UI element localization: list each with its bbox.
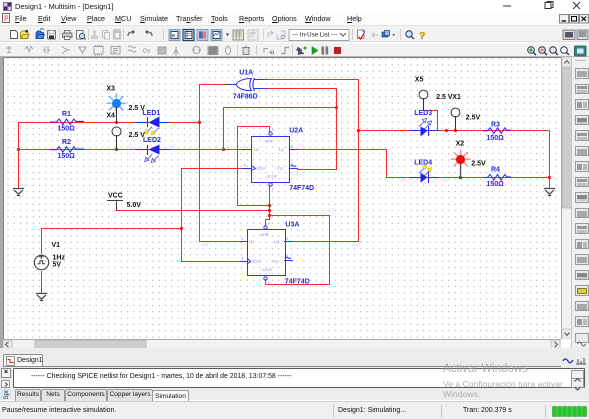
- svg-text:150Ω: 150Ω: [487, 181, 505, 188]
- node preset chain 2: [268, 209, 271, 212]
- svg-text:U3A: U3A: [285, 221, 299, 228]
- open yellow: [21, 30, 30, 39]
- tabs: [0, 389, 589, 402]
- wire to U3A CLK: [182, 261, 241, 263]
- svg-text:X3: X3: [106, 86, 115, 93]
- wire row1 left: [19, 122, 200, 124]
- node X3 stem junction: [115, 121, 118, 124]
- svg-text:1CLK: 1CLK: [256, 167, 266, 171]
- svg-text:74F86D: 74F86D: [233, 94, 258, 101]
- svg-text:X2: X2: [456, 140, 465, 147]
- ground GND3: [545, 189, 555, 196]
- svg-text:?: ?: [419, 30, 425, 42]
- svg-text:--- In-Use List ---: --- In-Use List ---: [292, 31, 337, 38]
- svg-text:3: 3: [241, 257, 243, 261]
- svg-text:~1CLR: ~1CLR: [260, 268, 272, 272]
- svg-text:5: 5: [286, 237, 288, 241]
- wire left rail: [18, 123, 20, 189]
- svg-text:2: 2: [244, 145, 246, 149]
- svg-text:0v: 0v: [143, 48, 151, 55]
- svg-text:~1CLR: ~1CLR: [265, 175, 277, 179]
- node row2 feedback junction: [222, 148, 225, 151]
- wire U3A CLR loop: [266, 216, 330, 285]
- svg-text:5: 5: [291, 145, 293, 149]
- wire U3A PRE jog: [266, 220, 270, 226]
- wire long vertical U3A Q: [358, 80, 360, 242]
- wire VCC feed: [117, 210, 270, 212]
- wire preset chain vertical: [269, 186, 271, 220]
- schematic svg overlay: [3, 57, 561, 339]
- svg-text:1D: 1D: [254, 148, 259, 152]
- right two icons: [563, 30, 588, 40]
- svg-text:U2A: U2A: [289, 127, 303, 134]
- find: [406, 30, 414, 38]
- svg-text:5.0V: 5.0V: [127, 202, 142, 209]
- svg-text:150Ω: 150Ω: [58, 125, 76, 132]
- wire U2A PRE loop: [238, 127, 270, 206]
- open blue: [36, 28, 45, 38]
- wire to U3A 1D: [200, 241, 241, 243]
- wire row1 right: [359, 130, 550, 132]
- resistor R3: [484, 128, 511, 134]
- svg-text:1: 1: [268, 281, 270, 285]
- wire to U2A CLK: [182, 168, 243, 170]
- svg-text:~1PR: ~1PR: [263, 140, 273, 144]
- svg-text:150Ω: 150Ω: [58, 153, 76, 160]
- LED3: [411, 118, 438, 136]
- wire feedback vertical: [223, 108, 225, 150]
- probe X3 (lit blue): [107, 94, 126, 123]
- new: [11, 30, 18, 38]
- vertical scrollbar: [561, 57, 571, 339]
- wire X5 branch: [424, 111, 438, 131]
- svg-text:R1: R1: [62, 111, 71, 118]
- LED4 (lit): [411, 165, 438, 183]
- wire V1 bottom to ground: [41, 272, 43, 294]
- flip-flop U2A: [243, 132, 298, 186]
- zoom icons right: [528, 46, 569, 54]
- svg-text:74F74D: 74F74D: [289, 185, 314, 192]
- node right rail row2: [548, 176, 551, 179]
- In-Use combo: [289, 29, 349, 40]
- svg-text:5V: 5V: [53, 262, 62, 269]
- wire feedback horizontal: [224, 107, 337, 109]
- wire right rail down: [549, 131, 551, 189]
- op-amp U1A xor gate: [228, 79, 267, 91]
- svg-text:6: 6: [291, 162, 293, 166]
- svg-text:2: 2: [241, 237, 243, 241]
- resistor R2: [51, 147, 84, 153]
- svg-text:~1Q: ~1Q: [271, 260, 278, 264]
- sim group: [297, 46, 307, 54]
- svg-text:X1: X1: [452, 94, 461, 101]
- svg-text:2.5V: 2.5V: [466, 115, 481, 122]
- svg-text:1Q: 1Q: [279, 148, 284, 152]
- node X1 junction: [445, 129, 448, 132]
- probe X5: [419, 90, 428, 110]
- svg-text:R4: R4: [491, 166, 500, 173]
- horizontal scrollbar: [3, 339, 561, 348]
- resistor R4: [484, 175, 511, 181]
- undo redo: [128, 29, 152, 35]
- voltage source V1: [34, 255, 48, 270]
- svg-text:X5: X5: [415, 76, 424, 83]
- ground GND2: [14, 189, 24, 196]
- svg-text:1Q: 1Q: [274, 240, 279, 244]
- view toggle group: [169, 29, 258, 40]
- wire V1 top to junction: [42, 229, 182, 254]
- svg-text:150Ω: 150Ω: [487, 135, 505, 142]
- node X4 stem junction: [115, 148, 118, 151]
- svg-text:4: 4: [268, 221, 270, 225]
- cut copy paste (disabled): [91, 29, 120, 39]
- probe X4: [112, 127, 121, 150]
- wire U1A input B horizontal: [267, 88, 337, 90]
- save: [48, 30, 56, 39]
- wire row2 left: [19, 149, 243, 151]
- node left rail row2: [17, 148, 20, 151]
- LED1 (lit): [136, 117, 170, 136]
- svg-text:2.5 V: 2.5 V: [436, 94, 453, 101]
- svg-text:~1Q: ~1Q: [275, 167, 282, 171]
- svg-text:LED1: LED1: [142, 110, 160, 117]
- ground GND1: [37, 294, 47, 301]
- resistor R1: [51, 119, 84, 125]
- svg-text:4: 4: [272, 128, 274, 132]
- svg-text:1: 1: [272, 187, 274, 191]
- svg-text:1CLK: 1CLK: [252, 260, 262, 264]
- svg-text:X4: X4: [106, 112, 115, 119]
- svg-text:LED3: LED3: [414, 110, 432, 117]
- wire XOR output horizontal: [200, 84, 228, 86]
- node clock junction: [180, 227, 183, 230]
- svg-text:R3: R3: [491, 122, 500, 129]
- svg-text:U1A: U1A: [239, 69, 253, 76]
- wire XOR output vertical: [199, 85, 201, 242]
- node X1 stem junction: [454, 129, 457, 132]
- VCC symbol: [108, 201, 123, 211]
- svg-text:1Hz: 1Hz: [53, 255, 66, 262]
- wire U1A input B riser: [336, 89, 338, 170]
- node X2 stem junction: [459, 176, 462, 179]
- svg-text:LED2: LED2: [143, 137, 161, 144]
- svg-text:1D: 1D: [249, 240, 254, 244]
- wire U2A 1Q to LED4 row: [298, 150, 387, 178]
- wire U3A 1Q horizontal: [292, 241, 359, 243]
- svg-text:R2: R2: [62, 139, 71, 146]
- svg-text:74F74D: 74F74D: [285, 278, 310, 285]
- wire U1A input A horizontal: [267, 79, 359, 81]
- printer: [63, 30, 73, 39]
- wire clock vertical: [181, 169, 183, 262]
- LED2: [136, 145, 170, 163]
- node feedback T junction: [335, 106, 338, 109]
- instruments panel: [571, 57, 589, 348]
- node row1 right junction: [357, 129, 360, 132]
- svg-text:2.5V: 2.5V: [471, 161, 486, 168]
- svg-text:LED4: LED4: [414, 159, 432, 166]
- node preset chain 1: [268, 204, 271, 207]
- svg-text:~1PR: ~1PR: [259, 233, 269, 237]
- preview: [77, 30, 86, 39]
- svg-text:VCC: VCC: [108, 193, 123, 200]
- probe X1: [451, 108, 460, 130]
- node row1 xor junction: [198, 121, 201, 124]
- flip-flop U3A: [241, 226, 293, 280]
- ERC: [358, 30, 367, 39]
- svg-text:?: ?: [362, 31, 366, 37]
- svg-text:V1: V1: [52, 242, 61, 249]
- svg-text:6: 6: [286, 254, 288, 258]
- wire row2 right: [387, 177, 550, 179]
- svg-text:3: 3: [244, 164, 246, 168]
- probe X2 (lit red): [451, 150, 470, 178]
- white netlist box: [13, 368, 585, 388]
- close btn: [1, 368, 11, 378]
- wire U2A notQ: [298, 169, 337, 171]
- node preset chain 3: [268, 214, 271, 217]
